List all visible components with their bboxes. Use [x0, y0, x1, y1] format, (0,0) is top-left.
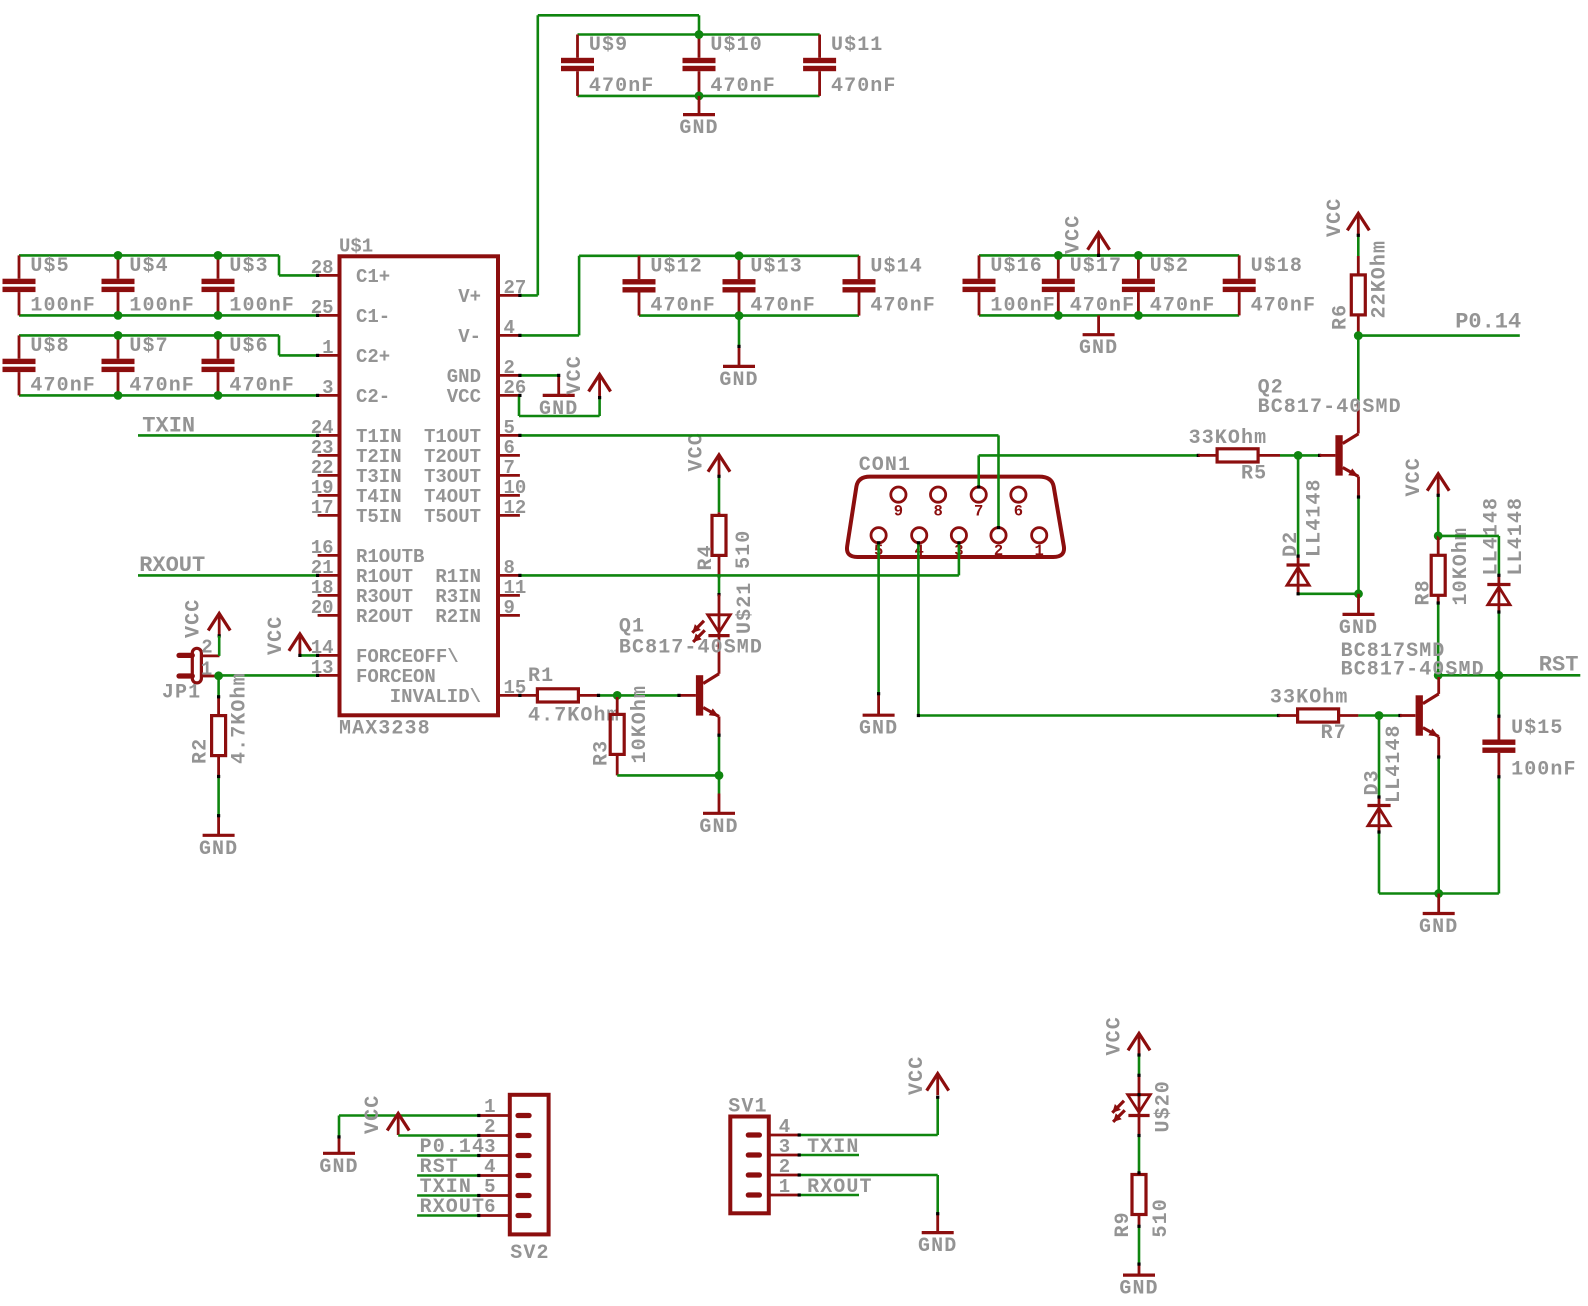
- svg-text:U$13: U$13: [750, 255, 802, 278]
- svg-text:510: 510: [1150, 1198, 1173, 1237]
- svg-text:18: 18: [311, 577, 334, 599]
- svg-text:100nF: 100nF: [129, 294, 195, 317]
- svg-text:T4OUT: T4OUT: [424, 486, 481, 508]
- svg-text:C2+: C2+: [356, 346, 390, 368]
- svg-text:U$14: U$14: [870, 255, 922, 278]
- svg-text:1: 1: [322, 337, 333, 359]
- svg-text:470nF: 470nF: [1070, 294, 1136, 317]
- svg-text:C1+: C1+: [356, 266, 390, 288]
- svg-text:BC817-40SMD: BC817-40SMD: [1258, 396, 1402, 419]
- svg-text:RXOUT: RXOUT: [420, 1196, 486, 1219]
- svg-text:1: 1: [201, 659, 212, 681]
- svg-text:6: 6: [484, 1196, 495, 1218]
- svg-text:100nF: 100nF: [229, 294, 295, 317]
- svg-text:4.7KOhm: 4.7KOhm: [528, 705, 620, 728]
- svg-text:Q1: Q1: [619, 616, 645, 639]
- svg-text:U$2: U$2: [1150, 255, 1189, 278]
- svg-text:470nF: 470nF: [1251, 294, 1317, 317]
- svg-text:GND: GND: [918, 1235, 957, 1258]
- svg-text:T5IN: T5IN: [356, 506, 402, 528]
- svg-text:R9: R9: [1112, 1211, 1135, 1237]
- svg-text:470nF: 470nF: [589, 75, 655, 98]
- svg-text:U$11: U$11: [831, 34, 883, 57]
- svg-text:U$7: U$7: [129, 335, 168, 358]
- svg-text:9: 9: [504, 597, 515, 619]
- svg-text:RST: RST: [1539, 653, 1579, 678]
- svg-text:100nF: 100nF: [30, 294, 96, 317]
- svg-text:P0.14: P0.14: [1455, 310, 1521, 335]
- svg-text:GND: GND: [699, 816, 738, 839]
- svg-text:3: 3: [322, 377, 333, 399]
- svg-text:8: 8: [933, 503, 942, 521]
- svg-text:20: 20: [311, 597, 334, 619]
- svg-text:R2OUT: R2OUT: [356, 606, 413, 628]
- svg-text:U$8: U$8: [30, 335, 69, 358]
- svg-text:R3OUT: R3OUT: [356, 586, 413, 608]
- svg-text:GND: GND: [859, 718, 898, 741]
- svg-text:U$6: U$6: [229, 335, 268, 358]
- svg-text:U$17: U$17: [1070, 255, 1122, 278]
- svg-text:U$3: U$3: [229, 255, 268, 278]
- svg-text:FORCEOFF\: FORCEOFF\: [356, 646, 459, 668]
- svg-text:2: 2: [994, 542, 1003, 560]
- svg-text:3: 3: [484, 1136, 495, 1158]
- svg-text:D2: D2: [1280, 531, 1303, 557]
- svg-text:2: 2: [201, 637, 212, 659]
- svg-text:12: 12: [504, 497, 527, 519]
- svg-text:6: 6: [504, 437, 515, 459]
- svg-text:470nF: 470nF: [750, 295, 816, 318]
- svg-text:VCC: VCC: [1063, 215, 1086, 254]
- svg-text:R1IN: R1IN: [435, 566, 481, 588]
- svg-text:VCC: VCC: [686, 432, 709, 471]
- svg-text:R4: R4: [695, 544, 718, 570]
- svg-text:470nF: 470nF: [650, 295, 716, 318]
- svg-text:6: 6: [1014, 503, 1023, 521]
- svg-text:C1-: C1-: [356, 306, 390, 328]
- svg-text:510: 510: [733, 530, 756, 569]
- svg-text:GND: GND: [1119, 1278, 1158, 1301]
- svg-text:VCC: VCC: [1104, 1016, 1127, 1055]
- svg-text:RXOUT: RXOUT: [807, 1176, 873, 1199]
- svg-text:10KOhm: 10KOhm: [629, 685, 652, 764]
- svg-text:470nF: 470nF: [710, 75, 776, 98]
- svg-text:9: 9: [894, 503, 903, 521]
- svg-text:2: 2: [504, 357, 515, 379]
- svg-text:100nF: 100nF: [990, 294, 1056, 317]
- svg-text:R7: R7: [1321, 722, 1347, 745]
- svg-text:16: 16: [311, 537, 334, 559]
- svg-text:28: 28: [311, 257, 334, 279]
- svg-text:C2-: C2-: [356, 386, 390, 408]
- svg-text:R6: R6: [1330, 304, 1353, 330]
- svg-text:U$12: U$12: [650, 255, 702, 278]
- svg-text:T2IN: T2IN: [356, 446, 402, 468]
- svg-text:V+: V+: [458, 286, 481, 308]
- svg-text:33KOhm: 33KOhm: [1189, 427, 1268, 450]
- svg-text:U$18: U$18: [1251, 255, 1303, 278]
- svg-text:U$1: U$1: [339, 236, 373, 258]
- svg-text:U$20: U$20: [1153, 1080, 1176, 1132]
- svg-text:T2OUT: T2OUT: [424, 446, 481, 468]
- svg-text:2: 2: [484, 1116, 495, 1138]
- svg-text:T4IN: T4IN: [356, 486, 402, 508]
- svg-text:TXIN: TXIN: [807, 1136, 859, 1159]
- svg-text:JP1: JP1: [162, 682, 201, 705]
- svg-text:17: 17: [311, 497, 334, 519]
- svg-text:GND: GND: [1419, 916, 1458, 939]
- svg-text:INVALID\: INVALID\: [390, 686, 481, 708]
- svg-text:23: 23: [311, 437, 334, 459]
- svg-text:VCC: VCC: [906, 1056, 929, 1095]
- svg-text:T1IN: T1IN: [356, 426, 402, 448]
- svg-text:BC817-40SMD: BC817-40SMD: [1341, 659, 1485, 682]
- svg-text:470nF: 470nF: [1150, 294, 1216, 317]
- svg-text:10KOhm: 10KOhm: [1450, 527, 1473, 606]
- svg-text:1: 1: [1035, 542, 1044, 560]
- svg-text:GND: GND: [447, 366, 481, 388]
- svg-text:GND: GND: [679, 117, 718, 140]
- svg-text:CON1: CON1: [859, 454, 911, 477]
- svg-text:GND: GND: [319, 1156, 358, 1179]
- svg-text:GND: GND: [539, 398, 578, 421]
- svg-text:U$21: U$21: [734, 582, 757, 634]
- svg-text:VCC: VCC: [1403, 457, 1426, 496]
- svg-text:R2IN: R2IN: [435, 606, 481, 628]
- svg-text:T5OUT: T5OUT: [424, 506, 481, 528]
- svg-text:4.7KOhm: 4.7KOhm: [229, 672, 252, 764]
- svg-text:33KOhm: 33KOhm: [1270, 687, 1349, 710]
- svg-text:470nF: 470nF: [831, 75, 897, 98]
- svg-text:LL4148: LL4148: [1304, 478, 1327, 557]
- svg-text:T3OUT: T3OUT: [424, 466, 481, 488]
- svg-text:22KOhm: 22KOhm: [1369, 240, 1392, 319]
- svg-text:10: 10: [504, 477, 527, 499]
- svg-text:11: 11: [504, 577, 527, 599]
- svg-text:R2: R2: [190, 738, 213, 764]
- svg-text:U$10: U$10: [710, 34, 762, 57]
- svg-text:FORCEON: FORCEON: [356, 666, 436, 688]
- svg-text:4: 4: [504, 317, 515, 339]
- svg-text:VCC: VCC: [362, 1095, 385, 1134]
- svg-text:GND: GND: [719, 369, 758, 392]
- svg-text:1: 1: [779, 1176, 790, 1198]
- svg-text:T3IN: T3IN: [356, 466, 402, 488]
- svg-text:SV2: SV2: [510, 1242, 549, 1265]
- svg-text:27: 27: [504, 277, 527, 299]
- svg-text:VCC: VCC: [183, 599, 206, 638]
- svg-text:5: 5: [484, 1176, 495, 1198]
- svg-text:470nF: 470nF: [30, 374, 96, 397]
- svg-text:2: 2: [779, 1156, 790, 1178]
- svg-text:VCC: VCC: [265, 616, 288, 655]
- svg-text:R1OUTB: R1OUTB: [356, 546, 424, 568]
- svg-text:RXOUT: RXOUT: [139, 553, 205, 578]
- svg-text:4: 4: [484, 1156, 495, 1178]
- svg-text:19: 19: [311, 477, 334, 499]
- svg-text:R1: R1: [528, 665, 554, 688]
- svg-text:5: 5: [504, 417, 515, 439]
- svg-text:1: 1: [484, 1096, 495, 1118]
- svg-text:LL4148: LL4148: [1383, 724, 1406, 803]
- svg-text:100nF: 100nF: [1511, 759, 1577, 782]
- svg-text:U$4: U$4: [129, 255, 168, 278]
- svg-text:VCC: VCC: [1324, 198, 1347, 237]
- svg-text:VCC: VCC: [447, 386, 481, 408]
- svg-text:25: 25: [311, 297, 334, 319]
- svg-text:LL4148: LL4148: [1481, 497, 1504, 576]
- svg-text:470nF: 470nF: [229, 374, 295, 397]
- svg-text:VCC: VCC: [564, 355, 587, 394]
- svg-text:U$9: U$9: [589, 34, 628, 57]
- svg-text:U$16: U$16: [990, 255, 1042, 278]
- svg-text:BC817-40SMD: BC817-40SMD: [619, 637, 763, 660]
- svg-text:GND: GND: [1339, 617, 1378, 640]
- svg-text:3: 3: [779, 1136, 790, 1158]
- svg-text:T1OUT: T1OUT: [424, 426, 481, 448]
- svg-text:MAX3238: MAX3238: [339, 718, 431, 741]
- svg-text:4: 4: [779, 1116, 790, 1138]
- svg-text:U$5: U$5: [30, 255, 69, 278]
- svg-text:R5: R5: [1241, 463, 1267, 486]
- svg-text:LL4148: LL4148: [1505, 497, 1528, 576]
- svg-text:22: 22: [311, 457, 334, 479]
- svg-text:26: 26: [504, 377, 527, 399]
- svg-text:SV1: SV1: [728, 1096, 767, 1119]
- svg-text:8: 8: [504, 557, 515, 579]
- svg-text:V-: V-: [458, 326, 481, 348]
- svg-text:R1OUT: R1OUT: [356, 566, 413, 588]
- svg-text:7: 7: [974, 503, 983, 521]
- svg-text:D3: D3: [1362, 769, 1385, 795]
- svg-text:R8: R8: [1413, 579, 1436, 605]
- svg-text:R3IN: R3IN: [435, 586, 481, 608]
- svg-text:470nF: 470nF: [129, 374, 195, 397]
- svg-text:7: 7: [504, 457, 515, 479]
- svg-text:U$15: U$15: [1511, 717, 1563, 740]
- svg-text:470nF: 470nF: [870, 295, 936, 318]
- svg-text:GND: GND: [1079, 337, 1118, 360]
- svg-text:GND: GND: [199, 838, 238, 861]
- svg-text:R3: R3: [591, 740, 614, 766]
